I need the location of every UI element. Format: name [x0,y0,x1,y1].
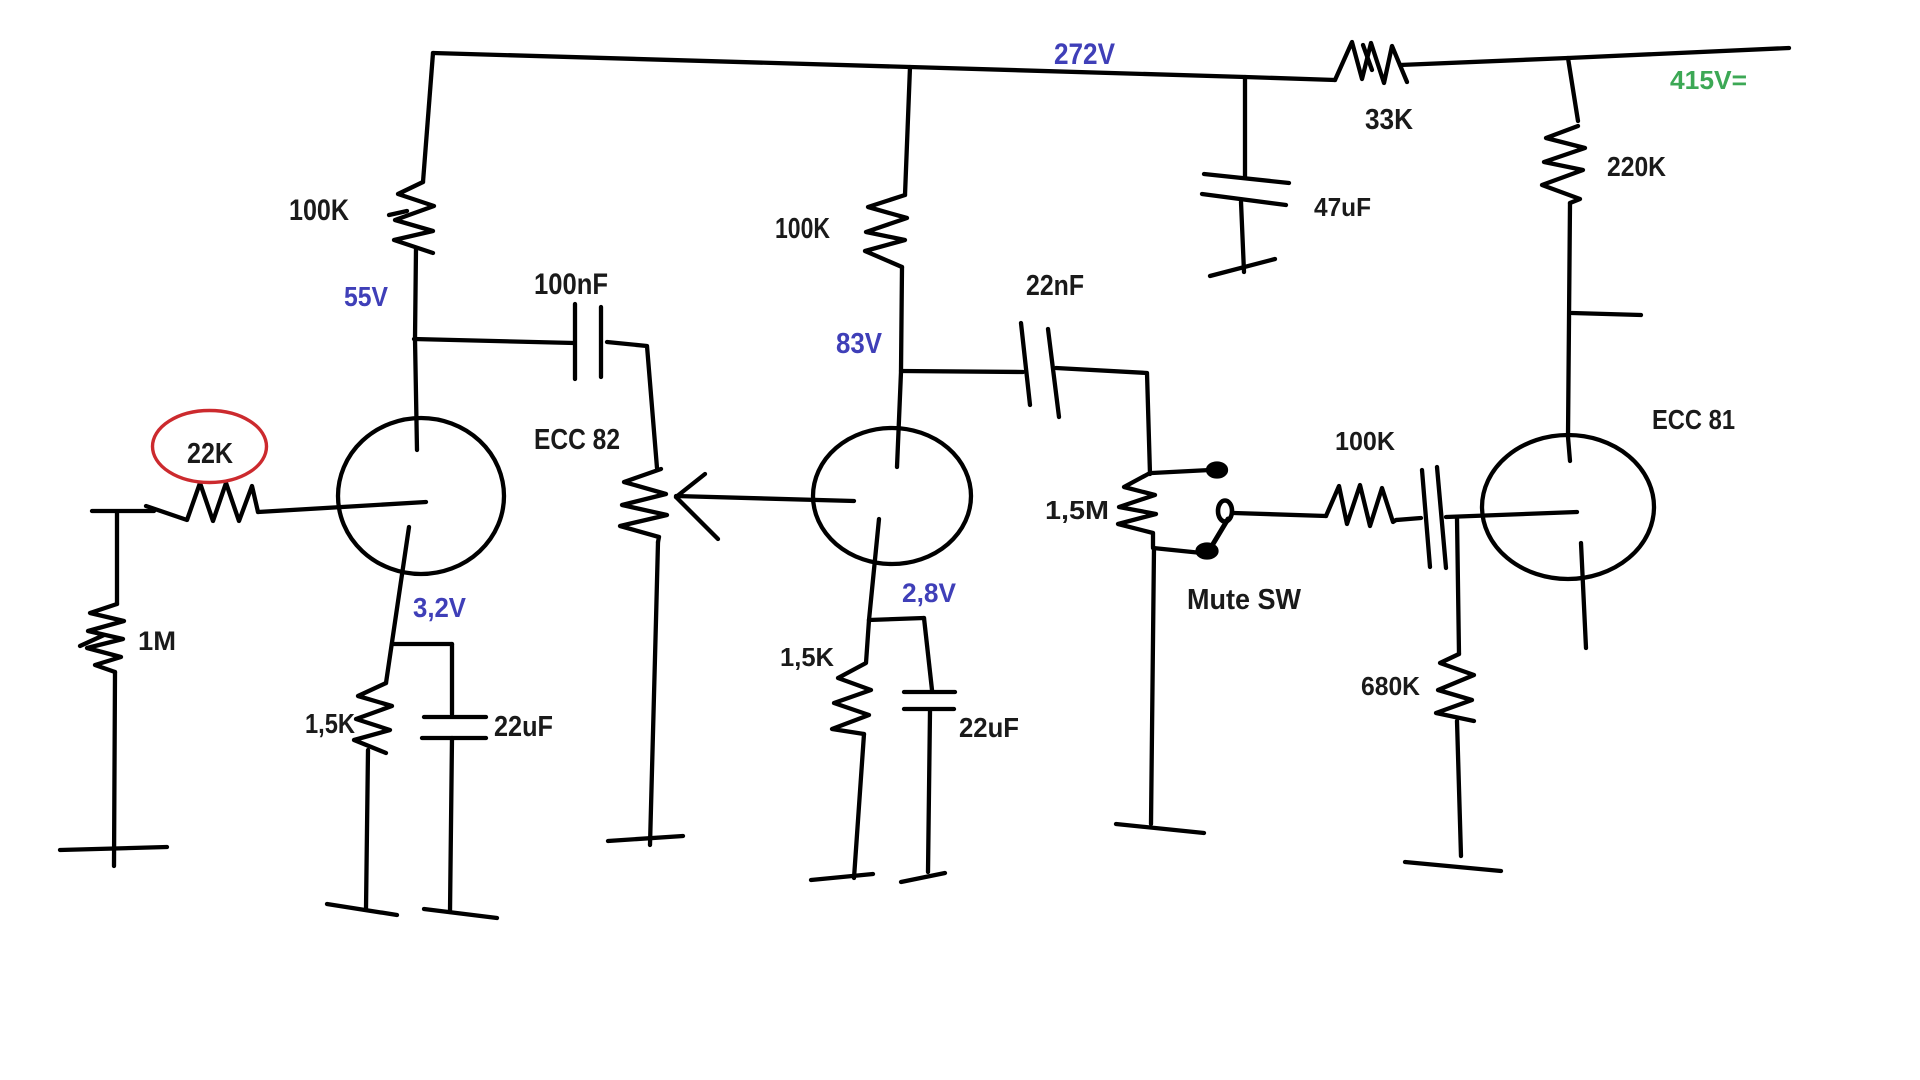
wire mute switch to 100K grid [1234,513,1326,516]
ground 1,5M [1116,824,1204,833]
resistor 100K V1 retrace stroke [389,211,407,215]
mute switch top contact dot [1208,464,1226,477]
capacitor 100nF right plate [599,307,603,377]
wire 220K to V3 plate pin [1568,203,1570,461]
mute switch middle ring contact [1218,501,1232,522]
capacitor 22uF top plate [424,715,486,719]
svg-text:415V=: 415V= [1670,65,1747,95]
capacitor 47uF top plate [1204,174,1289,183]
svg-text:1M: 1M [138,626,176,656]
wire 100K to 83V node [901,267,902,371]
tube V1 ECC82 envelope [338,418,504,574]
mute switch lever [1210,519,1228,549]
tube V2 ECC82 envelope [813,428,971,564]
svg-text:1,5M: 1,5M [1045,495,1109,525]
ground 1,5K V2 [811,874,873,880]
svg-text:55V: 55V [344,281,388,312]
ground 680K [1405,862,1501,871]
ground 1,5K [327,904,397,915]
wire drop to 1M [115,512,119,604]
wire drop from rail to 100K V2 [905,67,910,195]
coupling capacitor left plate [1422,470,1430,567]
resistor 22K grid stopper [146,483,258,521]
capacitor 22nF right plate [1048,329,1059,417]
ground 22uF V2 [901,873,945,882]
wire 680K to ground [1457,721,1461,856]
wire 22uF V2 top lead [924,618,932,690]
capacitor 22uF V2 bottom plate [904,707,954,711]
capacitor 22uF bottom plate [422,736,486,740]
wire 22K to V1 grid pin [258,502,426,512]
capacitor 22uF V2 top plate [904,690,955,694]
svg-text:100K: 100K [775,213,830,245]
mute switch bottom contact dot [1198,545,1217,558]
wire pot wiper to V2 grid [676,496,854,501]
junction stub at V3 plate [1572,313,1641,315]
V3 cathode pin [1581,543,1586,648]
resistor 33K retrace stroke [1363,45,1372,70]
wire input terminal [92,509,154,513]
capacitor 100nF left plate [573,304,577,379]
resistor 100K grid stopper V3 [1326,485,1396,526]
svg-text:22K: 22K [187,438,233,470]
arrow barb lower [676,497,718,539]
wire pot bottom to lower contact [1153,548,1202,553]
wire drop from rail to R 100K anode V1 [423,53,433,182]
resistor 1,5K cathode V2 [832,620,871,734]
resistor 680K grid leak [1436,654,1474,721]
resistor 1M retrace stroke [80,635,104,646]
svg-text:3,2V: 3,2V [413,592,466,623]
V1 plate pin [415,339,417,450]
svg-text:2,8V: 2,8V [902,578,956,608]
highlight ellipse around 22K [153,411,267,483]
svg-text:83V: 83V [836,328,883,360]
svg-text:33K: 33K [1365,104,1413,136]
capacitor 22nF left plate [1021,323,1030,405]
svg-text:1,5K: 1,5K [305,708,355,739]
wire 100nF to volume pot [607,342,657,468]
svg-text:22uF: 22uF [959,712,1019,743]
ground pot [608,836,683,841]
svg-text:680K: 680K [1361,671,1420,701]
wire 1,5M to ground [1151,548,1154,824]
svg-text:1,5K: 1,5K [780,642,834,672]
svg-text:ECC 82: ECC 82 [534,424,620,456]
wire 1,5K V2 to ground [854,734,864,878]
potentiometer volume zigzag [620,469,667,542]
wire 1,5K to ground [366,750,368,909]
potentiometer 1,5M zigzag [1118,473,1156,547]
wire 100K to 55V node [415,248,416,339]
svg-text:ECC 81: ECC 81 [1652,404,1735,435]
svg-text:100K: 100K [289,194,349,227]
V1 cathode pin [386,527,409,683]
wire 22uF to ground [450,738,452,912]
wire 100K to coupling cap [1396,518,1421,520]
resistor 1M grid leak [87,604,124,672]
wire drop from rail to 47uF [1243,77,1247,177]
wire 1,5M top contact lead [1152,470,1210,473]
svg-text:Mute SW: Mute SW [1187,584,1302,616]
wire 47uF to ground [1241,202,1244,272]
svg-text:22uF: 22uF [494,711,553,743]
svg-text:220K: 220K [1607,151,1666,182]
ground input [60,847,167,850]
svg-text:100K: 100K [1335,426,1395,456]
resistor 100K plate load V1 [394,182,434,253]
ground 47uF [1210,259,1275,276]
svg-text:272V: 272V [1054,38,1115,71]
wire 55V node to 100nF [414,339,574,343]
resistor 33K [1335,42,1407,83]
wire drop from rail to 220K [1568,58,1578,121]
wire drop to 680K [1457,518,1459,654]
coupling capacitor right plate [1437,467,1446,568]
wire 22nF to 1,5M pot [1056,368,1150,474]
wire 22uF V2 to ground [928,711,930,872]
wire cap to V3 grid pin [1446,512,1577,517]
V2 cathode pin [869,519,879,620]
wire 2,8V cathode node [869,618,924,620]
svg-text:22nF: 22nF [1026,270,1084,302]
svg-text:100nF: 100nF [534,268,608,301]
wire top supply rail left segment [433,53,1335,80]
tube V3 ECC81 envelope [1482,435,1654,579]
wire 3,2V cathode node [394,642,452,646]
capacitor 47uF bottom plate [1202,194,1286,205]
wire pot bottom lead [650,542,658,845]
svg-text:47uF: 47uF [1314,192,1371,222]
wire 22uF top lead [450,644,454,714]
resistor 100K plate load V2 [865,195,907,267]
wire 83V node to 22nF [901,371,1023,372]
resistor 1,5K cathode V1 [354,683,392,753]
V2 plate pin [897,372,901,467]
resistor 220K plate load V3 [1542,126,1585,203]
wire top supply rail right segment (415V end) [1400,48,1789,65]
ground 22uF [424,909,497,918]
arrow barb upper [676,474,705,497]
wire 1M to ground [114,672,115,866]
